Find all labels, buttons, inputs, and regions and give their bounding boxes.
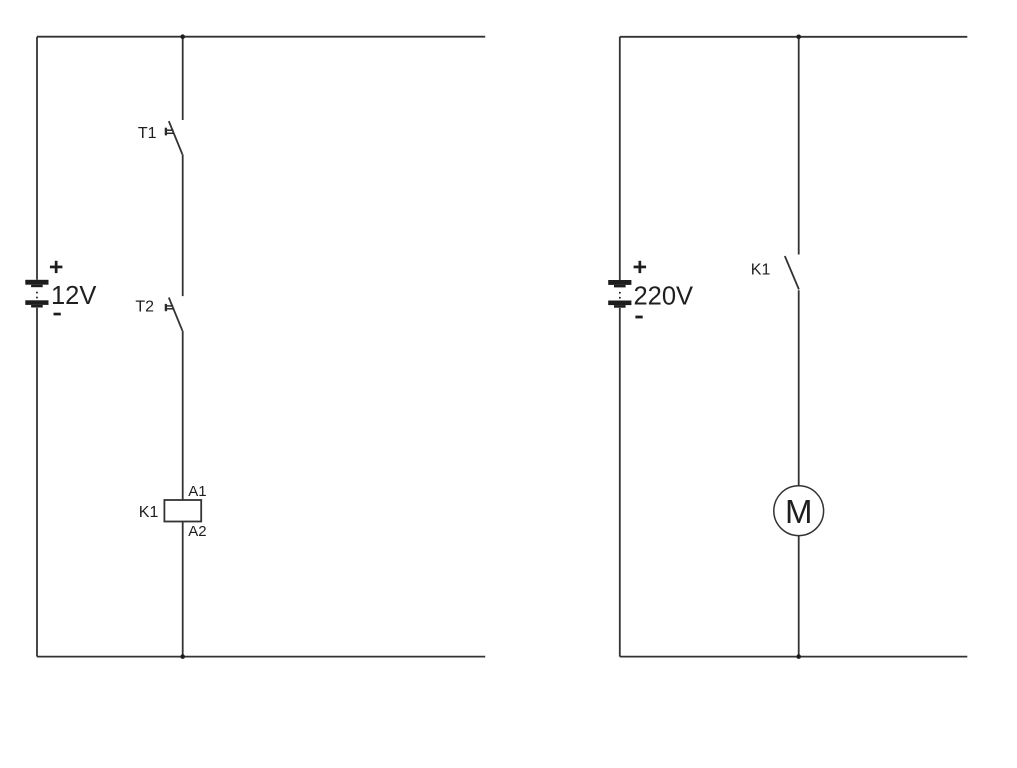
svg-text:M: M <box>785 493 813 530</box>
svg-text:220V: 220V <box>634 283 694 311</box>
svg-text:T2: T2 <box>135 298 154 315</box>
svg-text:T1: T1 <box>138 125 157 142</box>
svg-text:12V: 12V <box>51 282 96 310</box>
svg-text:K1: K1 <box>751 261 771 278</box>
svg-text:K1: K1 <box>139 504 159 521</box>
svg-text:A1: A1 <box>188 483 206 500</box>
svg-text:A2: A2 <box>188 523 206 540</box>
